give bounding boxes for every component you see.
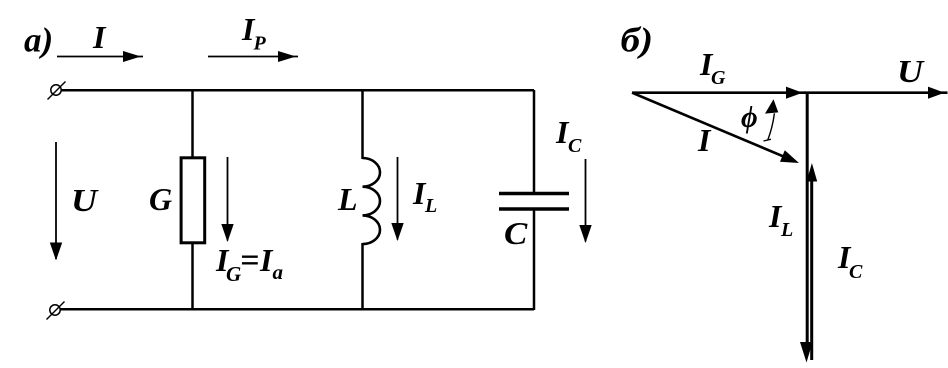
svg-text:ϕ: ϕ [741, 101, 758, 134]
svg-text:P: P [253, 33, 267, 55]
terminal top input [48, 82, 66, 100]
svg-text:б): б) [621, 21, 654, 60]
label I_C (phasor) [837, 239, 863, 283]
wire G branch bottom [191, 243, 194, 310]
label I_L (phasor) [768, 198, 793, 241]
current arrow I_G [221, 157, 233, 242]
phasor I_C [807, 163, 818, 360]
svg-text:I: I [697, 122, 712, 158]
label I_G (phasor) [699, 46, 726, 89]
current arrow I (top left) [57, 51, 143, 62]
resistor G [181, 158, 205, 243]
svg-text:G: G [711, 67, 726, 89]
wire C branch bottom [533, 209, 536, 310]
current arrow I_C [579, 159, 591, 243]
inductor L [363, 158, 381, 244]
svg-text:a): a) [24, 21, 53, 60]
svg-text:C: C [849, 261, 863, 283]
wire C branch top [533, 90, 536, 193]
svg-text:I: I [92, 19, 107, 55]
angle phi arc [764, 99, 779, 141]
label I_L [412, 175, 437, 217]
current arrow I_L [391, 157, 403, 241]
wire bottom bus [60, 308, 534, 311]
svg-text:G: G [226, 262, 241, 286]
svg-text:=: = [240, 242, 259, 279]
wire L branch top [361, 90, 364, 159]
phasor U [804, 87, 948, 99]
phasor I_L [800, 93, 813, 363]
label I_C [555, 114, 582, 157]
capacitor C [499, 194, 569, 210]
svg-text:L: L [780, 219, 793, 241]
current arrow IP [208, 51, 298, 62]
svg-text:a: a [273, 260, 284, 284]
svg-text:C: C [504, 216, 528, 251]
wire L branch bottom [361, 243, 364, 310]
wire G branch top [191, 90, 194, 158]
svg-text:U: U [71, 184, 100, 219]
phasor I_G [632, 87, 806, 99]
label I_G=I_a [215, 242, 283, 286]
terminal bottom input [47, 302, 65, 320]
svg-text:G: G [149, 181, 172, 217]
voltage arrow U [50, 142, 62, 261]
phasor I [632, 93, 799, 163]
svg-text:L: L [424, 195, 437, 217]
svg-text:C: C [568, 135, 582, 157]
svg-text:L: L [337, 181, 358, 217]
wire top bus [61, 89, 534, 92]
svg-text:U: U [897, 55, 926, 90]
